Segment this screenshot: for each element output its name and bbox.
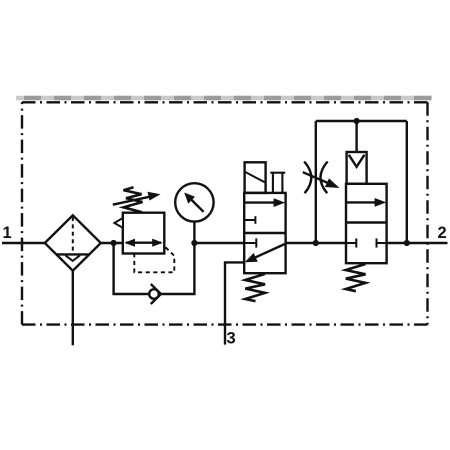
flow control adjustment arrow (303, 172, 340, 188)
wire: pilot branch left riser (315, 121, 317, 243)
node junction at gauge (191, 240, 197, 246)
regulator adjustment arrow (113, 192, 161, 205)
filter F1 dashed element line (72, 217, 74, 254)
svg-text:2: 2 (438, 224, 447, 242)
manual override of valve V1 (270, 173, 285, 193)
wire: outlet line to port 2 (387, 242, 448, 244)
wire: valve V1 outlet to V2 (286, 242, 346, 244)
valve V1 return spring (245, 274, 265, 301)
grey artifact line above frame (16, 96, 432, 100)
valve V1 exhaust path diagonal arrow (245, 244, 286, 263)
valve V1 blocked port 1 in rest position (244, 238, 256, 247)
valve V2 body (2/2 soft start) (346, 184, 387, 263)
flow control throttle arcs (304, 162, 327, 194)
svg-text:3: 3 (227, 330, 236, 348)
wire: filter to regulator (101, 242, 123, 244)
node junction at regulator inlet (111, 240, 117, 246)
valve V1 blocked port in actuated position (244, 216, 255, 224)
valve V2 return spring (346, 264, 366, 291)
node junction left of V2 (313, 240, 319, 246)
filter F1 diamond body (45, 215, 101, 270)
wire: pilot top run (316, 120, 407, 122)
gauge needle (184, 193, 203, 212)
filter F1 condensate V (65, 255, 80, 261)
wire: exhaust line to port 3 (225, 262, 244, 344)
node junction right of V2 (404, 240, 410, 246)
wire: pilot drop to check box (355, 121, 357, 152)
enclosure boundary frame (dash-dot) (22, 102, 428, 324)
wire: bypass left drop (114, 243, 150, 294)
pilot check valve box of V2 (347, 152, 367, 184)
svg-text:1: 1 (3, 224, 12, 242)
wire: port 1 inlet line (2, 242, 45, 244)
wire: pilot right riser (406, 121, 408, 243)
node junction at pilot top (354, 118, 360, 124)
gauge stem (193, 222, 195, 243)
valve V1 actuated-position flow arrow (245, 198, 286, 207)
solenoid coil of valve V1 (245, 162, 266, 193)
filter F1 drain stem (72, 271, 74, 346)
regulator pilot dashed feedback loop (134, 247, 174, 272)
regulator relief vent triangle (114, 218, 123, 228)
valve V2 open-position flow arrow (347, 198, 387, 207)
pressure gauge dial (175, 183, 213, 221)
regulator flow line with arrows (124, 239, 162, 247)
wire: bypass right run up to gauge node (161, 243, 195, 294)
filter F1 separator chord (56, 253, 89, 255)
wire: gauge node to valve V1 (194, 242, 244, 244)
check valve seat chevron (151, 284, 161, 304)
valve V1 body (3/2 way) (244, 193, 285, 273)
regulator body box (123, 213, 165, 254)
check valve circle (149, 289, 159, 299)
valve V2 blocked ports in rest position (346, 238, 387, 247)
regulator spring (124, 187, 143, 212)
